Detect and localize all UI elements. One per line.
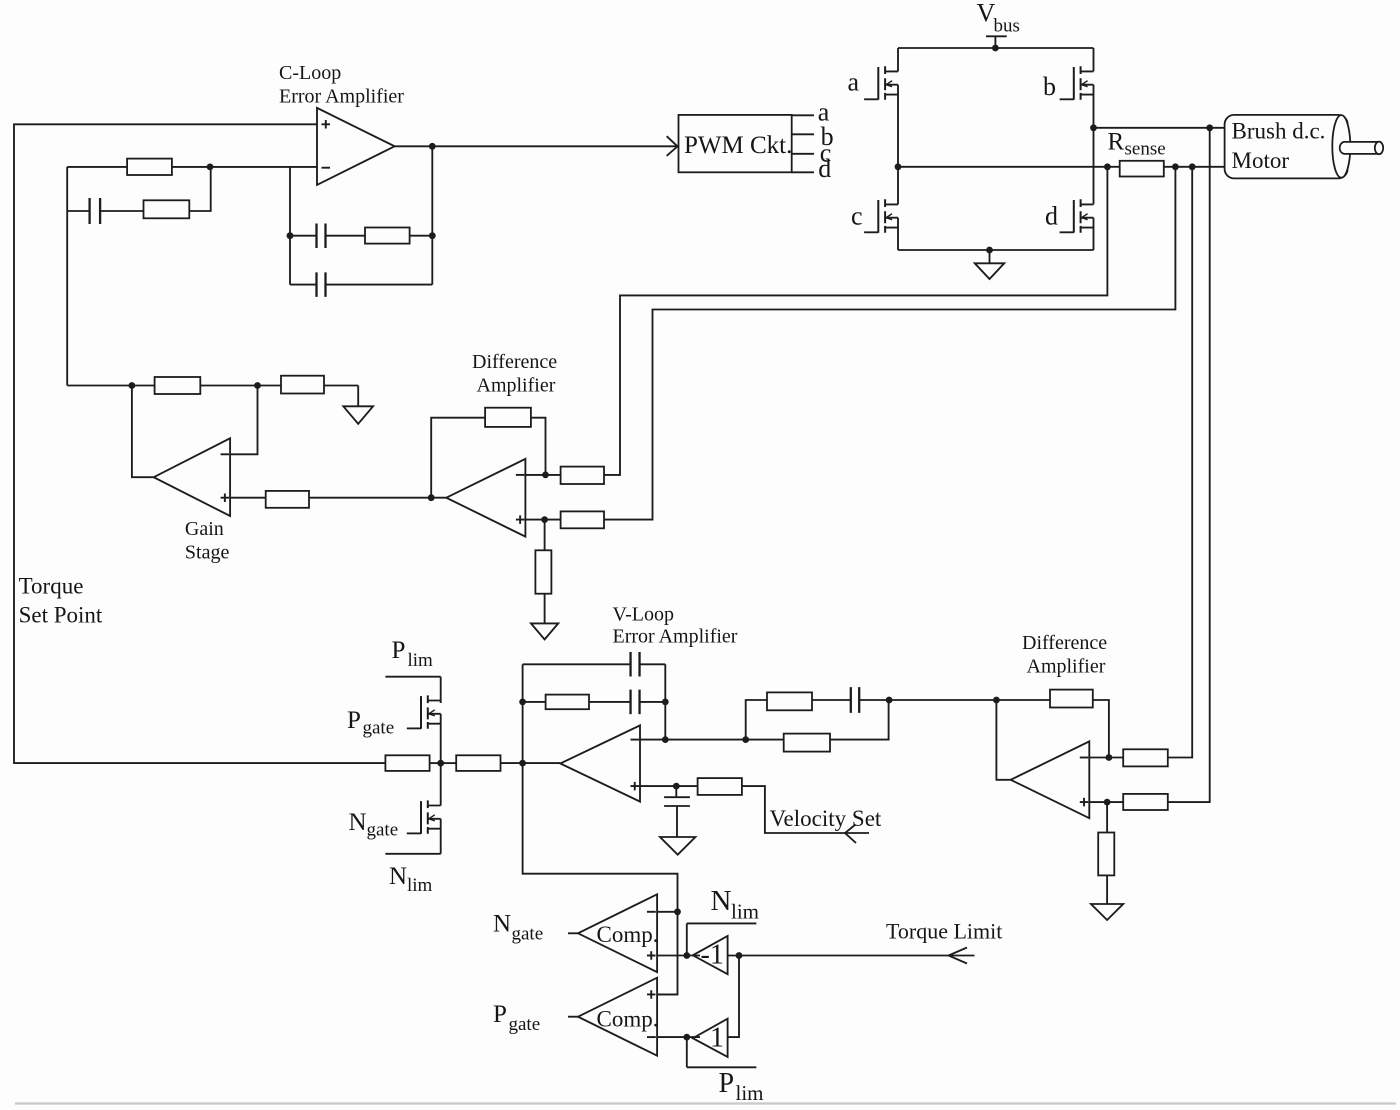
label P_gate (comp2) [493, 1001, 540, 1035]
capacitor C3 [290, 272, 432, 297]
op-amp U5 Difference Amplifier [1011, 741, 1090, 818]
svg-text:bus: bus [994, 16, 1020, 37]
resistor R1 [67, 159, 210, 175]
motor Brush d.c. Motor [1225, 115, 1384, 178]
label Torque Set Point [19, 574, 103, 628]
wire U3 feedback up [431, 418, 485, 498]
label V-Loop Error Amplifier [613, 604, 738, 648]
arrowhead Velocity Set [845, 825, 856, 844]
label Difference Amplifier (lower) [1022, 632, 1107, 678]
node feedback right mid [662, 699, 669, 706]
capacitor C1 [67, 198, 143, 224]
transistor c [864, 199, 898, 232]
arrowhead Torque Limit [949, 948, 968, 964]
node U3 - input [542, 472, 549, 479]
wire PWM output c [792, 153, 814, 155]
wire U5 - input [1089, 757, 1123, 759]
wire sense 1 (R_sense left to mid diff amp - input) [604, 167, 1107, 475]
svg-text:gate: gate [363, 718, 395, 739]
svg-text:1: 1 [710, 1023, 724, 1054]
svg-text:P: P [347, 707, 361, 734]
wire mid rail to R_sense [898, 166, 1120, 168]
wire to lower diff amp output node [889, 699, 996, 701]
wire comp1 output lead [568, 932, 578, 934]
capacitor C5 (mid feedback branch) [631, 690, 666, 715]
svg-text:Motor: Motor [1232, 148, 1290, 173]
svg-text:sense: sense [1125, 139, 1166, 160]
svg-text:c: c [851, 202, 863, 231]
label P_lim (comp) [719, 1068, 764, 1105]
resistor R8 [561, 467, 604, 484]
resistor R5 [281, 376, 358, 394]
wire U5 output [996, 700, 1010, 780]
wire U3 + input [525, 519, 560, 521]
resistor R20 [1098, 833, 1114, 905]
wire motor top lead [1094, 127, 1225, 129]
ground gain stage top [343, 386, 373, 424]
wire sense 4 (motor top to lower diff amp + input) [1168, 128, 1210, 802]
transistor N_gate MOSFET [407, 800, 441, 833]
node right leg motor tap [1090, 124, 1097, 131]
buffer 1 [693, 1019, 728, 1057]
label N_gate (comp1) [493, 910, 543, 944]
node gain - feedback junction [254, 382, 261, 389]
svg-text:Velocity Set: Velocity Set [770, 806, 882, 831]
svg-text:P: P [493, 1001, 507, 1028]
node comp1 + junction [683, 952, 690, 959]
node bottom rail ground tap [986, 247, 993, 254]
svg-text:Error Amplifier: Error Amplifier [613, 626, 738, 648]
resistor R14 [767, 692, 851, 710]
wire U4 feedback left vertical [522, 664, 524, 763]
svg-text:Difference: Difference [472, 351, 557, 373]
transistor a [864, 66, 898, 99]
wire N_lim bar to comp1 + [687, 923, 757, 955]
wire - network top branch up [746, 700, 767, 740]
wire U4 - input [640, 739, 746, 741]
wire gain stage top run [67, 385, 154, 387]
wire comp2 - input [657, 1036, 700, 1038]
wire U2 output [132, 386, 154, 478]
wire P_lim bar from comp2 - [687, 1037, 757, 1067]
wire PWM output d [792, 171, 814, 173]
node U4 output/feedback junction [519, 760, 526, 767]
svg-text:Gain: Gain [185, 518, 224, 540]
op-amp U3 Difference Amplifier [446, 459, 525, 537]
label N_lim (comp) [711, 885, 760, 924]
wire U1 output to PWM and feedback vertical [395, 146, 677, 284]
svg-text:lim: lim [408, 650, 434, 671]
wire V-loop output to comparators [523, 763, 678, 994]
node gain output junction [129, 382, 136, 389]
node comp2 - junction [683, 1034, 690, 1041]
svg-text:gate: gate [512, 924, 544, 945]
op-amp U2 Gain Stage [154, 438, 230, 516]
wire PWM output b [792, 133, 814, 135]
node left leg mid rail [895, 163, 902, 170]
node - network join [886, 697, 893, 704]
capacitor C6 [851, 687, 889, 713]
node U5 feedback/output junction [993, 697, 1000, 704]
label Gain Stage [185, 518, 230, 564]
wire left feedback branch vertical [66, 167, 68, 386]
node feedback branch A left [287, 232, 294, 239]
svg-text:b: b [1043, 72, 1056, 101]
svg-text:Comp.: Comp. [597, 922, 659, 947]
label C-Loop Error Amplifier [279, 62, 404, 108]
svg-text:gate: gate [509, 1014, 541, 1035]
node sense tap 2 [1172, 163, 1179, 170]
wire comp1 + input [657, 955, 700, 957]
resistor R18 [1123, 749, 1168, 766]
comparator Comp2 (P_gate) [578, 978, 658, 1056]
svg-text:Comp.: Comp. [597, 1007, 659, 1032]
svg-text:C-Loop: C-Loop [279, 62, 341, 84]
wire N MOSFET drain from rail [440, 763, 442, 805]
node U5 + input [1104, 799, 1111, 806]
wire U1 feedback down from - input [289, 167, 291, 285]
svg-text:N: N [493, 910, 511, 937]
resistor R19 [1123, 794, 1168, 810]
resistor R3 [365, 228, 432, 244]
wire U1 - input [210, 166, 317, 168]
node - network split [742, 736, 749, 743]
wire P MOSFET source to rail [440, 714, 442, 763]
wire U4 feedback right vertical [664, 664, 666, 739]
transistor d [1060, 199, 1094, 232]
resistor R6 [266, 491, 447, 508]
label Difference Amplifier (mid) [472, 351, 557, 397]
resistor R_sense [1120, 161, 1225, 177]
label N_gate [349, 809, 399, 841]
node U5 - input [1106, 754, 1113, 761]
svg-text:Stage: Stage [185, 542, 230, 564]
node torque limit junction [736, 952, 743, 959]
node sense tap 1 [1104, 163, 1111, 170]
ground V-loop + filter [660, 837, 695, 855]
node U3 + input [541, 516, 548, 523]
transistor b [1060, 66, 1094, 99]
power V_bus [977, 0, 1020, 48]
svg-text:Torque Limit: Torque Limit [886, 919, 1002, 944]
svg-text:N: N [389, 863, 407, 890]
resistor R12 [385, 755, 440, 771]
svg-text:d: d [1045, 202, 1058, 231]
node U4 feedback mid-branch left [519, 699, 526, 706]
comparator Comp1 (N_gate) [578, 894, 658, 972]
wire sense 2 (R_sense right to mid diff amp + input) [604, 167, 1175, 520]
wire sense 3 (to lower diff amp - input) [1168, 167, 1192, 758]
resistor R9 [561, 511, 604, 528]
node V_bus on rail [992, 45, 999, 52]
svg-text:-1: -1 [701, 940, 724, 971]
label P_gate [347, 707, 394, 739]
svg-text:a: a [848, 67, 860, 96]
wire U2 - input [230, 386, 257, 455]
op-amp U4 V-Loop error amplifier [560, 725, 640, 801]
node sense tap 4 [1206, 124, 1213, 131]
wire U4 + input [640, 785, 698, 787]
wire Torque Limit [729, 955, 975, 957]
resistor R13 (mid feedback branch) [523, 695, 630, 710]
wire comp2 + input [657, 993, 677, 995]
node sense tap 3 [1189, 163, 1196, 170]
resistor R15 (bottom branch) [746, 700, 889, 752]
resistor R10 [535, 550, 551, 623]
resistor R2 [144, 167, 211, 218]
wire U5 + input [1089, 801, 1123, 803]
svg-text:P: P [392, 637, 406, 664]
wire U3 - input [525, 474, 560, 476]
node comp1 - tap [674, 908, 681, 915]
svg-text:Brush d.c.: Brush d.c. [1232, 118, 1326, 143]
svg-text:Difference: Difference [1022, 632, 1107, 654]
svg-text:Amplifier: Amplifier [1027, 656, 1106, 678]
ground H-bridge [975, 250, 1005, 279]
wire U3 + to divider [544, 520, 546, 551]
buffer -1 [693, 936, 728, 974]
svg-text:d: d [818, 154, 831, 183]
resistor R11 [441, 755, 561, 771]
svg-text:lim: lim [736, 1081, 764, 1105]
wire Torque Set Point rail (U1 + input, left rail, bottom run) [14, 124, 385, 763]
wire P_lim bar [385, 677, 440, 703]
wire H-bridge bottom rail [898, 249, 1094, 251]
wire PWM output a [792, 114, 814, 116]
svg-text:R: R [1108, 129, 1125, 156]
resistor R17 (U5 feedback) [996, 690, 1109, 758]
node U4 + input [673, 783, 680, 790]
op-amp U1 C-Loop error amplifier [317, 108, 395, 185]
capacitor C4 (top feedback branch) [523, 652, 666, 677]
svg-text:Amplifier: Amplifier [477, 375, 556, 397]
svg-text:lim: lim [731, 900, 759, 924]
label N_lim (bottom) [389, 863, 433, 896]
resistor R16 [698, 778, 869, 833]
node limiter on torque line [437, 760, 444, 767]
PWM circuit box [679, 115, 793, 172]
svg-text:Torque: Torque [19, 574, 84, 599]
node U4 - input [662, 736, 669, 743]
resistor R4 [155, 377, 281, 394]
svg-text:lim: lim [407, 875, 433, 896]
svg-text:Error Amplifier: Error Amplifier [279, 86, 404, 108]
wire comp2 output lead [568, 1016, 578, 1018]
wire H-bridge right leg [1093, 48, 1095, 250]
node U3 output junction [428, 494, 435, 501]
wire H-bridge left leg [897, 48, 899, 250]
svg-text:P: P [719, 1068, 735, 1099]
wire H-bridge top rail [898, 47, 1094, 49]
svg-text:V-Loop: V-Loop [613, 604, 674, 626]
label P_lim (top) [392, 637, 434, 671]
capacitor C7 (+ input filter) [664, 786, 690, 837]
wire N_lim bar [385, 819, 440, 854]
svg-text:Set Point: Set Point [19, 603, 103, 628]
capacitor C2 [290, 223, 365, 248]
svg-text:N: N [711, 885, 732, 917]
wire comp1 - input [657, 911, 677, 913]
scan artifact line [15, 1102, 1396, 1104]
svg-text:gate: gate [367, 820, 399, 841]
resistor R7 [485, 408, 545, 475]
node U1 output [429, 143, 436, 150]
label R_sense [1108, 129, 1166, 160]
node U1 - network junction [207, 164, 214, 171]
transistor P_gate MOSFET [407, 695, 441, 728]
wire buffer outputs link [729, 956, 740, 1038]
svg-text:N: N [349, 809, 367, 836]
ground lower difference amplifier [1091, 904, 1123, 920]
node feedback branch A right [429, 232, 436, 239]
ground mid difference amplifier [531, 623, 558, 639]
arrowhead into PWM box [667, 136, 678, 156]
wire U2 + input [230, 497, 266, 499]
svg-text:PWM Ckt.: PWM Ckt. [684, 132, 792, 159]
wire U5 + to divider [1106, 802, 1108, 832]
